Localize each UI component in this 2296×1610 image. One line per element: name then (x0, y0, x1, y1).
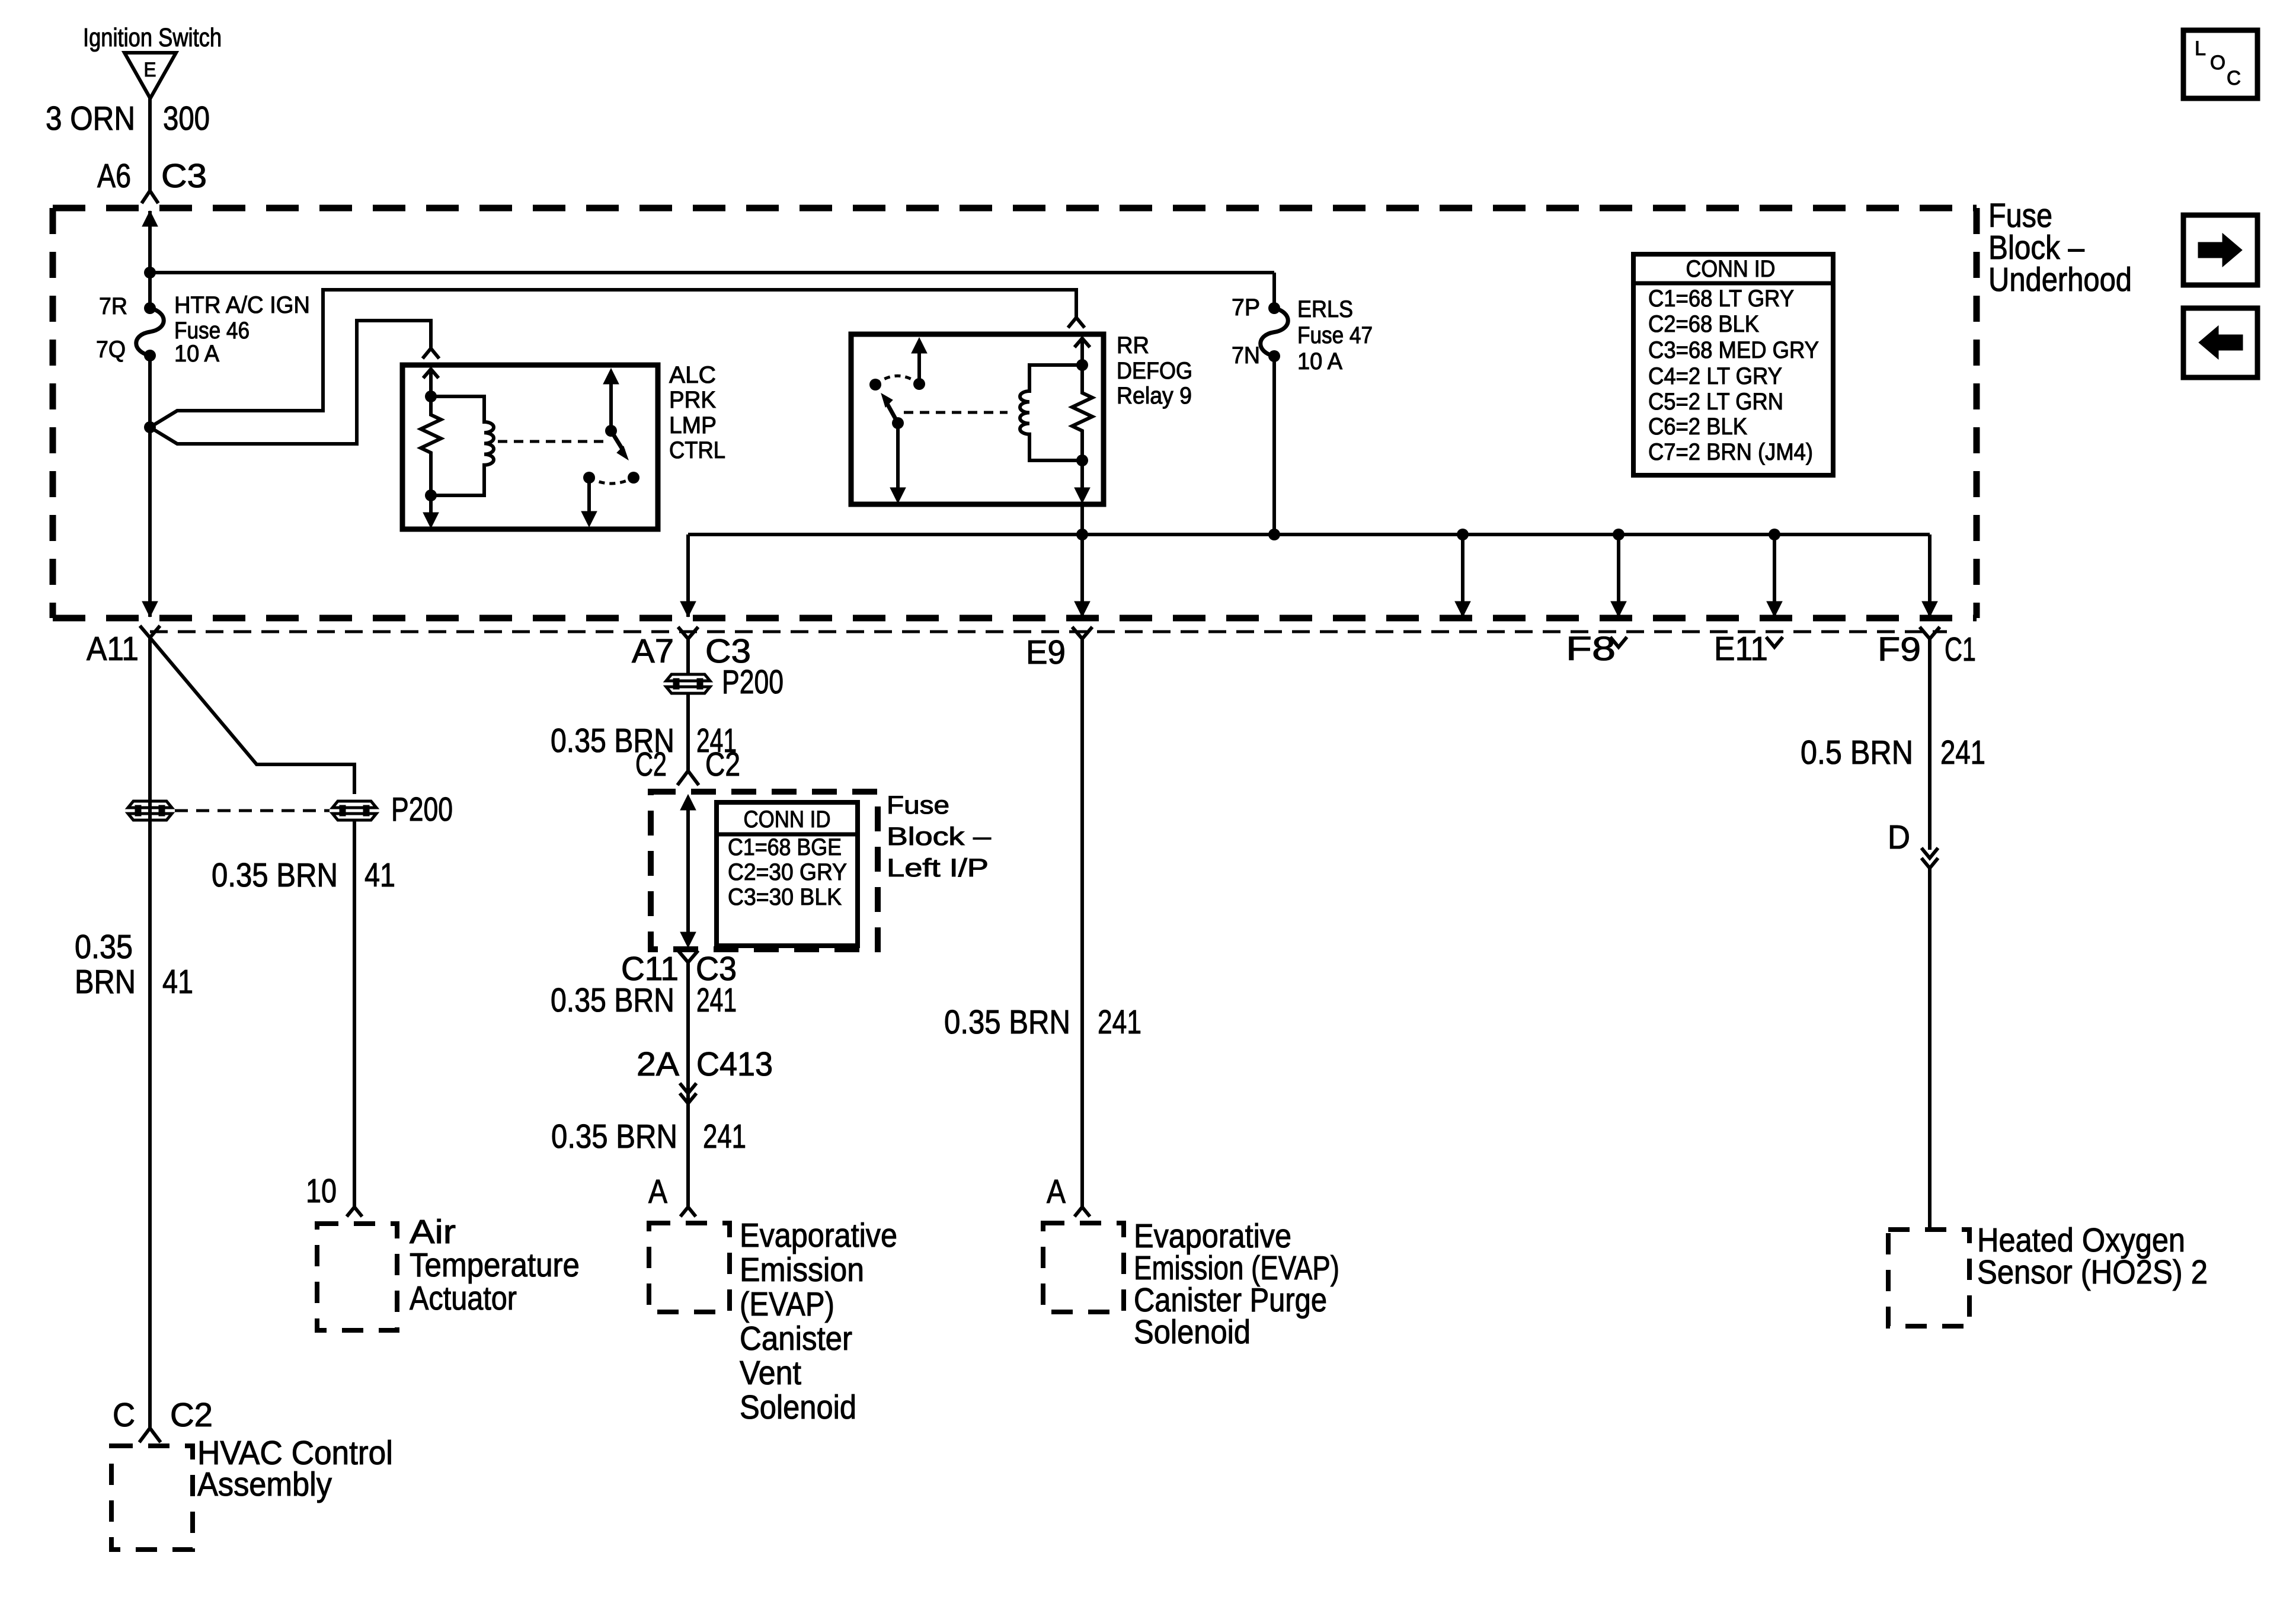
branch junction dot (144, 421, 156, 433)
connector chevron at fuse block entry C3 (142, 191, 158, 203)
connector Y at A7 C3 (678, 627, 698, 639)
ALC relay coil-side down arrow (429, 495, 433, 515)
dashed link between P200 halves (175, 809, 330, 812)
connector chevron F8 (1610, 637, 1627, 647)
svg-text:ALC: ALC (669, 362, 716, 388)
svg-text:C: C (2227, 67, 2241, 89)
svg-text:Underhood: Underhood (1988, 261, 2132, 299)
wire A11 down to HVAC (148, 638, 152, 1428)
svg-text:C7=2 BRN (JM4): C7=2 BRN (JM4) (1648, 439, 1813, 465)
svg-text:241: 241 (696, 981, 737, 1019)
svg-text:Emission: Emission (740, 1251, 864, 1289)
fuse block underhood dashed boundary box (53, 205, 1977, 212)
svg-text:241: 241 (1098, 1003, 1141, 1041)
bus corner down to A7 (686, 534, 690, 617)
svg-text:241: 241 (703, 1118, 746, 1156)
RR relay mechanical dashed link (904, 411, 1008, 414)
svg-text:A: A (1047, 1173, 1066, 1211)
wire from junction down to A11 exit (148, 427, 152, 617)
ALC relay switch blade (611, 431, 623, 451)
svg-text:0.5 BRN: 0.5 BRN (1801, 734, 1913, 772)
back arrow box (2183, 308, 2257, 377)
connector fork at HVAC C2 (139, 1428, 161, 1442)
fuse block left IP dashed box (651, 792, 878, 949)
svg-text:7Q: 7Q (96, 337, 126, 363)
svg-text:10 A: 10 A (174, 341, 219, 367)
wire C11 down (686, 962, 690, 1207)
svg-text:0.35 BRN: 0.35 BRN (551, 981, 674, 1019)
svg-text:C2=68 BLK: C2=68 BLK (1648, 311, 1759, 337)
svg-text:7N: 7N (1232, 343, 1260, 369)
ALC relay coil-side pin chevron (423, 369, 439, 378)
RR relay switch output down arrow (896, 423, 900, 490)
svg-text:DEFOG: DEFOG (1117, 358, 1192, 384)
svg-text:Assembly: Assembly (197, 1465, 332, 1503)
svg-text:Fuse: Fuse (887, 791, 949, 820)
svg-text:0.35 BRN: 0.35 BRN (944, 1003, 1070, 1041)
svg-text:0.35: 0.35 (75, 928, 133, 966)
svg-text:0.35 BRN: 0.35 BRN (212, 856, 338, 894)
svg-text:A6: A6 (97, 157, 131, 195)
ignition switch triangle symbol E (124, 53, 176, 98)
relay RR DEFOG box (851, 334, 1104, 504)
chevron into EVAP vent solenoid (680, 1207, 696, 1217)
svg-text:Fuse 47: Fuse 47 (1297, 322, 1373, 348)
svg-text:300: 300 (163, 100, 210, 137)
RR relay coil-side down arrow (1080, 460, 1084, 490)
fuse 46 HTR A/C IGN terminal 7R dot (144, 302, 156, 314)
chevron into EVAP purge solenoid (1075, 1207, 1090, 1217)
EVAP canister purge solenoid dashed box (1043, 1223, 1124, 1312)
forward arrow box (2183, 215, 2257, 285)
ALC relay coil (431, 396, 494, 495)
inline connector C413 double chevron (680, 1083, 696, 1093)
HVAC control assembly dashed box (111, 1446, 193, 1550)
chevron into air temperature actuator (347, 1207, 362, 1217)
bus dot to ERLS (1268, 529, 1280, 540)
svg-text:HTR A/C IGN: HTR A/C IGN (174, 292, 310, 318)
svg-text:C2: C2 (170, 1396, 213, 1434)
svg-text:LMP: LMP (669, 412, 717, 438)
connector ID table underhood (1633, 254, 1833, 475)
fuse 47 terminal 7P dot (1268, 302, 1280, 314)
wire P200 to fuse block left IP (686, 693, 690, 771)
fuse 46 terminal 7Q dot (144, 350, 156, 361)
svg-text:Air: Air (410, 1213, 456, 1251)
wire fuse 47 down to bus (1272, 356, 1276, 534)
RR relay coil-side pin chevron (1075, 338, 1090, 347)
ALC relay switch up arrow (609, 383, 613, 431)
svg-text:Canister: Canister (740, 1320, 852, 1358)
svg-text:Temperature: Temperature (410, 1246, 580, 1284)
svg-text:A7: A7 (632, 632, 674, 670)
svg-text:C1=68 BGE: C1=68 BGE (728, 834, 842, 860)
wire 300 from ignition switch to fuse block (148, 98, 152, 192)
svg-text:CTRL: CTRL (669, 437, 725, 463)
svg-text:C2=30 GRY: C2=30 GRY (728, 859, 847, 885)
ALC relay mechanical dashed link (498, 440, 605, 443)
bus wire inside fuse block (688, 533, 1930, 536)
RR relay resistor (1072, 365, 1092, 460)
chevron into RR defog relay (1068, 318, 1085, 328)
svg-text:0.35 BRN: 0.35 BRN (551, 1118, 677, 1156)
ALC relay switch NO contact dot (628, 472, 639, 484)
svg-text:Relay 9: Relay 9 (1117, 383, 1192, 409)
air temperature actuator dashed box (317, 1224, 397, 1330)
fuse 47 element (1261, 308, 1288, 356)
svg-text:41: 41 (162, 963, 193, 1001)
connector Y below left IP C11 C3 (678, 950, 698, 962)
ALC relay coil-side pin wire and dot (429, 372, 433, 396)
svg-text:Left I/P: Left I/P (887, 854, 989, 882)
relay ALC PRK LMP CTRL box (402, 365, 658, 529)
wire P200 to actuator (353, 819, 356, 1207)
bus dot arrow F8 (1613, 529, 1625, 540)
wire D to HO2S box (1928, 868, 1932, 1230)
svg-text:E11: E11 (1714, 630, 1768, 668)
inline connector D double chevron (1921, 848, 1938, 858)
bus dot arrow E11 (1769, 529, 1780, 540)
connector P200 on A11 wire (128, 801, 172, 820)
svg-text:Evaporative: Evaporative (740, 1217, 897, 1254)
wire RR relay to bus (1080, 504, 1084, 534)
svg-text:3 ORN: 3 ORN (46, 100, 135, 137)
wire branch to RR defog relay (150, 290, 1076, 427)
svg-text:Sensor (HO2S) 2: Sensor (HO2S) 2 (1977, 1253, 2208, 1291)
wire E9 down to purge solenoid (1080, 639, 1084, 1207)
arrowhead entering fuse block (142, 211, 158, 226)
svg-text:7R: 7R (99, 293, 127, 319)
RR relay bottom dot (1076, 454, 1088, 466)
LOC reference box (2183, 30, 2257, 98)
svg-text:CONN ID: CONN ID (744, 806, 831, 833)
wire from fuse 46 to relay branch junction (148, 356, 152, 427)
connector fork at left IP C2 (677, 771, 699, 785)
ALC relay resistor (421, 396, 441, 495)
connector chevron E11 (1766, 637, 1783, 647)
svg-text:CONN ID: CONN ID (1686, 256, 1776, 282)
RR relay dashed contact arc (875, 376, 919, 385)
svg-text:PRK: PRK (669, 387, 716, 413)
RR relay coil (1020, 365, 1082, 460)
svg-text:P200: P200 (391, 790, 453, 828)
svg-text:A11: A11 (87, 630, 139, 668)
svg-text:(EVAP): (EVAP) (740, 1285, 834, 1323)
connector Y at E9 (1072, 627, 1092, 639)
svg-text:E9: E9 (1026, 633, 1066, 671)
svg-text:Ignition Switch: Ignition Switch (83, 23, 222, 52)
heated oxygen sensor dashed box (1888, 1230, 1969, 1326)
svg-text:C3=68 MED GRY: C3=68 MED GRY (1648, 337, 1819, 363)
thin dashed connector row line (150, 630, 1947, 633)
svg-text:F8: F8 (1566, 630, 1616, 668)
svg-text:Vent: Vent (740, 1354, 801, 1392)
svg-text:10 A: 10 A (1297, 348, 1342, 375)
svg-text:ERLS: ERLS (1297, 296, 1353, 322)
wire F9 down to HO2S (1928, 639, 1932, 850)
svg-text:BRN: BRN (75, 963, 136, 1001)
internal wire double arrow left IP (686, 806, 690, 936)
svg-text:Solenoid: Solenoid (740, 1388, 856, 1426)
svg-text:Block –: Block – (887, 822, 991, 851)
svg-text:Actuator: Actuator (410, 1279, 517, 1317)
svg-text:C4=2 LT GRY: C4=2 LT GRY (1648, 363, 1782, 389)
svg-text:241: 241 (1940, 734, 1985, 772)
RR relay pin wire and top dot (1080, 341, 1084, 365)
wire A7 to P200 (686, 639, 690, 675)
connector Y at A11 (140, 626, 160, 638)
RR relay switch blade (885, 401, 898, 423)
connector Y at F9 C1 (1920, 627, 1940, 639)
svg-text:C3: C3 (161, 157, 207, 195)
ALC relay switch output contact dot (583, 472, 595, 484)
connector P200 on actuator branch (332, 801, 376, 820)
svg-text:C2: C2 (635, 745, 667, 783)
exit arrow A11 (142, 601, 158, 617)
svg-text:41: 41 (364, 856, 395, 894)
svg-text:L: L (2195, 37, 2206, 60)
svg-text:Fuse 46: Fuse 46 (174, 318, 250, 344)
svg-text:Solenoid: Solenoid (1134, 1313, 1251, 1351)
svg-text:RR: RR (1117, 332, 1149, 359)
svg-text:C1=68 LT GRY: C1=68 LT GRY (1648, 286, 1794, 312)
svg-text:O: O (2210, 52, 2225, 74)
svg-text:C5=2 LT GRN: C5=2 LT GRN (1648, 389, 1783, 415)
svg-text:2A: 2A (637, 1045, 679, 1083)
wire branch to ALC relay (150, 321, 431, 444)
svg-text:E: E (144, 59, 156, 81)
RR relay switch common up arrow (917, 352, 921, 384)
bus dot arrow unlabeled (1457, 529, 1469, 540)
chevron into ALC relay (423, 348, 439, 359)
connector ID table left IP (717, 802, 858, 946)
EVAP canister vent solenoid dashed box (649, 1223, 730, 1312)
svg-text:C3=30 BLK: C3=30 BLK (728, 884, 842, 910)
junction node dot at ERLS feed (144, 267, 156, 279)
diagonal branch to air temperature actuator (150, 638, 354, 794)
fuse 46 element (136, 308, 164, 356)
ALC relay dashed contact arc (589, 478, 634, 484)
svg-text:10: 10 (306, 1172, 337, 1210)
svg-text:C1: C1 (1945, 630, 1976, 668)
connector P200 on A7 wire (666, 674, 710, 693)
svg-text:C: C (113, 1396, 135, 1434)
wire ERLS feed across top (150, 271, 1274, 274)
bus corner down to F9 (1928, 534, 1932, 617)
svg-text:C2: C2 (705, 745, 740, 783)
RR relay NC contact dot (869, 379, 881, 391)
ALC relay coil bottom dot (425, 489, 437, 501)
svg-text:P200: P200 (722, 663, 784, 701)
bus dot to E9 (1076, 529, 1088, 540)
svg-text:A: A (648, 1173, 667, 1211)
svg-text:C413: C413 (696, 1045, 773, 1083)
svg-text:7P: 7P (1232, 295, 1260, 321)
wire from ignition feed down inside fuse block (148, 273, 152, 308)
fuse 47 terminal 7N dot (1268, 350, 1280, 362)
ALC relay output down arrow (587, 478, 591, 514)
svg-text:F9: F9 (1878, 630, 1921, 668)
svg-text:C6=2 BLK: C6=2 BLK (1648, 414, 1747, 440)
svg-text:D: D (1888, 818, 1910, 856)
